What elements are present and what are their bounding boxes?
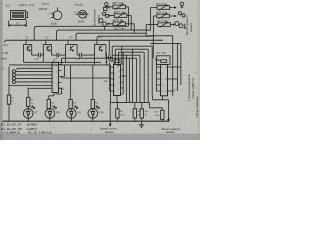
resistor R11b [116,102,119,121]
transistor case drawing V3,V4 (bottom view) [76,10,89,18]
resistor R15 [140,102,143,121]
resistor R13 [133,102,136,121]
edge vignette [0,0,3,140]
svg-text:V10: V10 [99,112,104,115]
jack column right channel [175,2,186,28]
output transistor V10 [88,106,99,121]
main negative bus -0.5V [6,39,164,41]
svg-text:R8* 510к: R8* 510к [112,1,125,5]
svg-text:В/кл: В/кл [2,57,8,61]
small resistor atop block A3 [161,60,167,63]
output transistor V9 [67,106,78,121]
svg-text:2: 2 [53,71,54,73]
svg-text:1: 1 [162,67,163,69]
svg-text:б,к,э,б: б,к,э,б [42,2,50,5]
svg-text:А3: А3 [171,89,176,93]
svg-text:L2(L3—L5): L2(L3—L5) [18,3,35,7]
svg-text:3: 3 [115,79,116,81]
svg-text:10: 10 [165,79,167,81]
bottom bus [3,120,169,122]
resistor R6 [91,99,94,108]
svg-text:V3: V3 [69,36,73,40]
svg-text:L2: L2 [1,68,6,71]
svg-text:А2: А2 [103,79,108,83]
svg-text:R10: R10 [154,111,160,114]
block A3 [153,65,169,100]
svg-text:В1,В2: В1,В2 [51,22,58,25]
svg-text:МП39Б: МП39Б [38,8,48,11]
svg-text:Д1: Д1 [52,60,56,63]
svg-text:канала: канала [105,130,114,134]
coil L1 detail drawing [9,11,29,28]
svg-text:б,к,э,б,э: б,к,э,б,э [75,3,85,6]
resistor R10 [161,110,164,121]
svg-text:R14* 8к: R14* 8к [112,18,124,22]
resistor R3 [47,99,50,108]
collector wires from stages to trimmers [34,26,153,40]
transformer outline atop block A3 [157,56,171,65]
svg-text:10: 10 [118,77,120,79]
resistor R4 [69,99,72,108]
trimmer R12 [146,22,175,28]
svg-text:V1: V1 [25,36,29,40]
svg-text:канала: канала [96,15,100,24]
scan speckles [2,5,197,134]
paper background [0,0,200,140]
svg-text:3: 3 [53,77,54,79]
svg-text:8: 8 [56,71,57,73]
svg-text:R12* 8к: R12* 8к [156,19,168,23]
svg-text:Серия 15ДМ-7А: Серия 15ДМ-7А [191,78,195,99]
junction dots [8,40,142,122]
svg-text:0-1В: 0-1В [2,51,8,55]
coupling capacitor C2 [36,53,42,58]
svg-text:R17* 8к: R17* 8к [114,26,126,30]
wire from A1 to R2 [27,88,29,97]
svg-text:12: 12 [118,71,120,73]
bus end tick [4,40,6,42]
ground symbol [139,121,144,127]
svg-text:V2: V2 [45,36,49,40]
jack column left channel [99,2,109,30]
oscillator stage V2 [43,40,51,53]
svg-text:2: 2 [115,73,116,75]
oscillator stage V3 [66,40,78,53]
svg-text:R15: R15 [144,110,150,113]
midband wire mesh right [62,7,181,103]
svg-text:12: 12 [165,67,167,69]
svg-text:4: 4 [53,82,54,84]
trimmer R14 [107,21,134,27]
svg-text:8: 8 [165,91,166,93]
trimmer R5 [151,5,177,10]
coupling capacitor C5 [106,55,112,60]
block A2 [110,46,133,102]
svg-text:В3,В4: В3,В4 [78,21,85,24]
output arrow left channel [109,102,111,126]
coupling capacitor C3 [55,53,61,58]
svg-text:5: 5 [53,88,54,90]
svg-text:8: 8 [118,89,119,91]
svg-text:17: 17 [16,22,20,26]
oscillator stage V1 [24,40,32,53]
svg-text:канала: канала [189,23,193,32]
output transistor V7 [23,106,34,121]
svg-text:9: 9 [56,65,57,67]
right resistor group top wire [111,101,150,103]
svg-text:-0,5 +5В: -0,5 +5В [156,52,166,55]
svg-text:У1,3: У1,3 [74,11,79,14]
output transistor V8 [45,106,56,121]
feed wire to R10 [150,102,163,110]
coupling capacitor C4 [77,53,83,58]
svg-text:канала: канала [166,130,175,134]
long verticals to R3,R4 [71,65,93,100]
svg-text:6: 6 [118,94,119,96]
pin numbers block A3 [162,67,167,93]
svg-text:4: 4 [115,85,116,87]
svg-text:1: 1 [115,67,116,69]
svg-text:А1: А1 [60,87,65,91]
svg-text:2: 2 [162,73,163,75]
svg-text:14: 14 [118,65,120,67]
pin numbers block A2 [115,65,120,97]
small resistor atop block A2 [114,60,120,63]
resistor R1 [7,67,10,122]
svg-text:5: 5 [162,91,163,93]
oscillator stage V4 [94,40,106,53]
svg-text:3: 3 [162,79,163,81]
svg-text:V4: V4 [98,36,102,40]
trimmer R11 [108,13,131,19]
svg-text:э: э [49,17,50,20]
svg-text:R11: R11 [119,110,124,113]
stage interconnect wires [9,53,113,65]
resistor R2 [27,97,30,108]
svg-text:5: 5 [115,91,116,93]
svg-text:6: 6 [56,83,57,85]
svg-text:9: 9 [118,83,119,85]
block A1 [49,58,110,99]
output arrow right channel [168,100,170,122]
svg-text:R5 510к: R5 510к [155,2,167,6]
svg-text:4: 4 [162,85,163,87]
input coils L2-L5 [9,68,52,88]
trimmer R8 [107,4,128,10]
pin numbers block A1 [53,65,57,90]
svg-text:L1: L1 [5,4,10,8]
svg-text:1: 1 [53,65,54,67]
svg-text:R13: R13 [137,110,143,113]
svg-text:7: 7 [56,77,57,79]
trimmer R9 [153,13,176,18]
svg-text:к блоку питания: к блоку питания [195,96,199,118]
svg-text:Л АЛВНСВ: Л АЛВНСВ [2,131,21,135]
transistor case drawing V1,V2 (bottom view) [51,7,62,19]
